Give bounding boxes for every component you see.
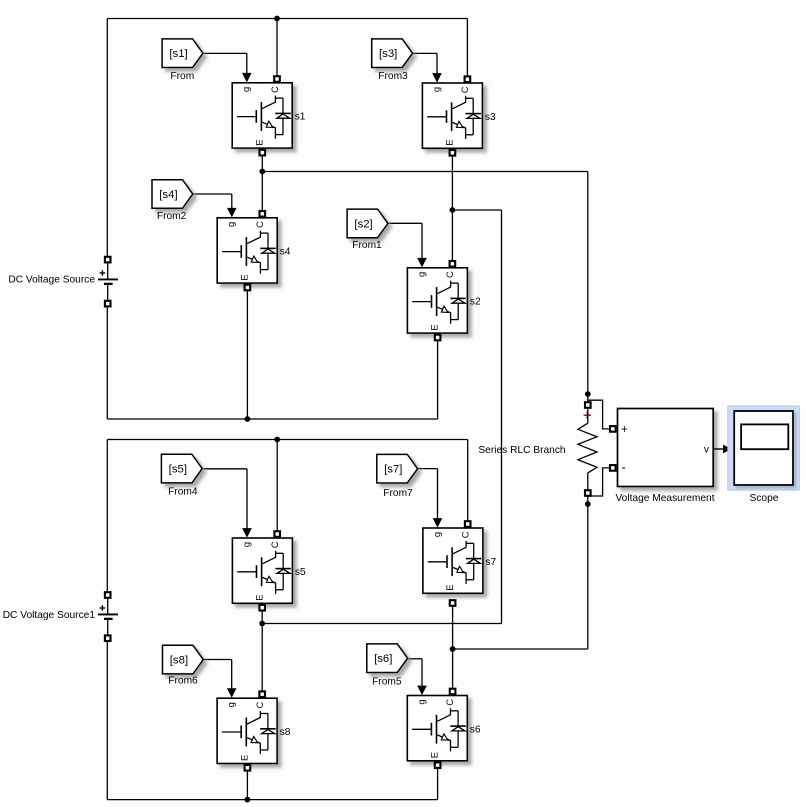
IGBT/Diode block s7 xyxy=(423,528,483,593)
svg-text:C: C xyxy=(445,271,456,278)
resistor zigzag xyxy=(578,423,597,473)
From tag From6 [s8] xyxy=(163,645,204,674)
svg-text:g: g xyxy=(416,272,427,277)
svg-text:+: + xyxy=(621,424,628,436)
node: s4 E junction on bottom rail xyxy=(245,416,251,422)
svg-text:[s8]: [s8] xyxy=(170,655,188,667)
port C of s3 xyxy=(465,76,471,82)
wire: RLC - column up xyxy=(587,496,589,649)
wire: v output to Scope xyxy=(713,448,723,450)
svg-text:DC Voltage Source1: DC Voltage Source1 xyxy=(3,610,96,621)
svg-text:C: C xyxy=(460,86,471,93)
wire: left drop to DC Voltage Source + xyxy=(106,19,108,258)
svg-text:Voltage Measurement: Voltage Measurement xyxy=(615,493,714,504)
svg-text:C: C xyxy=(270,541,281,548)
node: RLC + feed junction xyxy=(585,391,591,397)
svg-text:C: C xyxy=(445,699,456,706)
svg-text:C: C xyxy=(255,221,266,228)
wire: s7 collector drop xyxy=(467,440,469,522)
From tag From4 [s5] xyxy=(161,454,202,483)
port E of s7 xyxy=(450,600,456,606)
wire: bridge link column down to lower bridge xyxy=(501,210,503,624)
svg-text:Series RLC Branch: Series RLC Branch xyxy=(478,445,565,456)
wire: bottom rail xyxy=(107,799,437,801)
wire: From7 -> s7 gate xyxy=(418,468,437,470)
port E of s4 xyxy=(245,285,251,291)
wire: From1 -> s2 gate xyxy=(388,222,422,224)
port E of s1 xyxy=(260,150,266,156)
svg-text:DC Voltage Source: DC Voltage Source xyxy=(8,275,95,286)
DC Voltage Source xyxy=(98,257,118,307)
wire: upper bottom rail xyxy=(107,418,437,420)
wire: s7 E drop to node D xyxy=(452,605,454,649)
svg-text:s2: s2 xyxy=(470,297,481,308)
wire: node B down to s2 C xyxy=(451,210,453,261)
node: RLC - junction xyxy=(585,501,591,507)
port E of s8 xyxy=(245,765,251,771)
wire: DC source - drop xyxy=(106,306,108,419)
wire: From5 -> s6 gate xyxy=(409,658,422,660)
wire: RLC + to Voltage Measurement + xyxy=(588,400,610,429)
svg-text:E: E xyxy=(255,594,266,600)
plus sign xyxy=(100,272,106,274)
svg-text:From7: From7 xyxy=(383,488,413,499)
svg-text:g: g xyxy=(432,532,443,537)
wire: s1 collector drop xyxy=(276,19,278,77)
svg-text:s8: s8 xyxy=(280,727,291,738)
wire: From4 -> s5 gate xyxy=(203,468,247,470)
wire: s5 collector drop xyxy=(276,440,278,532)
wire: From6 -> s8 gate xyxy=(204,659,232,661)
svg-text:From5: From5 xyxy=(372,677,402,688)
DC Voltage Source1 xyxy=(98,592,118,641)
port C of s2 xyxy=(450,261,456,267)
IGBT/Diode block s3 xyxy=(422,83,482,148)
svg-text:[s6]: [s6] xyxy=(374,653,392,665)
wire: node C down to s8 C xyxy=(261,624,263,692)
svg-text:g: g xyxy=(431,87,442,92)
wire: RLC - to Voltage Measurement - xyxy=(588,468,610,496)
svg-text:C: C xyxy=(255,701,266,708)
IGBT/Diode block s2 xyxy=(407,268,467,333)
From tag From2 [s4] xyxy=(152,180,193,209)
scope screen xyxy=(741,424,788,449)
svg-text:[s2]: [s2] xyxy=(354,218,372,230)
wire: node A right to RLC column xyxy=(262,171,588,173)
port C of s5 xyxy=(274,531,280,537)
svg-text:Scope: Scope xyxy=(750,493,779,504)
svg-text:[s4]: [s4] xyxy=(159,189,177,201)
svg-text:-: - xyxy=(622,460,626,475)
node: s5 C junction on lower top rail xyxy=(274,437,280,443)
From tag From1 [s2] xyxy=(347,209,388,238)
svg-text:E: E xyxy=(430,324,441,330)
svg-text:g: g xyxy=(226,702,237,707)
wire: s1 E to mid rail A xyxy=(261,155,263,172)
wire: node D down to s6 C xyxy=(452,649,454,689)
port C of s1 xyxy=(274,76,280,82)
red polarity + xyxy=(584,414,591,416)
Series RLC Branch (resistor) xyxy=(578,402,597,496)
wire: RLC column down xyxy=(587,172,589,403)
wire: From3 -> s3 gate xyxy=(412,52,437,54)
IGBT/Diode block s4 xyxy=(217,218,277,283)
wire: lower bridge top rail xyxy=(107,439,467,441)
wire: s2 E drop xyxy=(437,340,439,419)
svg-text:E: E xyxy=(445,584,456,590)
IGBT/Diode block s8 xyxy=(217,698,277,763)
svg-text:E: E xyxy=(255,139,266,145)
plus sign xyxy=(100,607,106,609)
wire: From -> s1 gate xyxy=(203,52,247,54)
node A: s1E/s4C junction xyxy=(259,169,265,175)
svg-text:s1: s1 xyxy=(295,112,306,123)
wire: s5 E to mid rail C xyxy=(261,608,263,624)
port E of s3 xyxy=(450,150,456,156)
svg-text:s4: s4 xyxy=(280,247,291,258)
svg-text:From4: From4 xyxy=(168,487,198,498)
IGBT/Diode block s1 xyxy=(232,83,292,148)
svg-text:s3: s3 xyxy=(485,112,496,123)
port E of s5 xyxy=(259,605,265,611)
svg-text:From6: From6 xyxy=(168,676,198,687)
wire: top DC+ rail xyxy=(107,18,467,20)
svg-text:s6: s6 xyxy=(470,724,481,735)
From tag From7 [s7] xyxy=(377,454,418,483)
svg-text:s7: s7 xyxy=(485,557,496,568)
port C of s7 xyxy=(465,521,471,527)
svg-text:From: From xyxy=(170,71,194,82)
svg-text:C: C xyxy=(270,86,281,93)
From tag From3 [s3] xyxy=(372,39,413,68)
port E of s6 xyxy=(435,762,441,768)
svg-text:E: E xyxy=(239,755,250,761)
port C of s8 xyxy=(259,691,265,697)
wire: left drop to DC Voltage Source1 + xyxy=(106,440,108,593)
svg-text:E: E xyxy=(430,752,441,758)
svg-text:E: E xyxy=(240,274,251,280)
svg-text:[s7]: [s7] xyxy=(384,464,402,476)
svg-text:From2: From2 xyxy=(157,211,187,222)
node D: s7E/s6C junction xyxy=(450,646,456,652)
svg-text:From3: From3 xyxy=(378,71,408,82)
From tag From [s1] xyxy=(162,39,203,68)
svg-text:g: g xyxy=(241,87,252,92)
svg-text:E: E xyxy=(445,139,456,145)
port C of s6 xyxy=(450,689,456,695)
svg-text:From1: From1 xyxy=(352,240,382,251)
wire: s6 E drop xyxy=(437,767,439,799)
port C of s4 xyxy=(260,211,266,217)
From tag From5 [s6] xyxy=(367,644,408,673)
wire: s8 E drop xyxy=(246,770,248,800)
IGBT/Diode block s5 xyxy=(232,538,292,603)
svg-text:g: g xyxy=(226,222,237,227)
node C: s5E/s8C junction xyxy=(259,621,265,627)
node: s8 E junction on bottom rail xyxy=(245,797,251,803)
svg-text:[s5]: [s5] xyxy=(169,464,187,476)
wire: node D right to RLC - column xyxy=(453,648,588,650)
svg-text:s5: s5 xyxy=(295,567,306,578)
svg-text:[s1]: [s1] xyxy=(169,48,187,60)
wire: node A down to s4 C xyxy=(261,172,263,212)
node: top rail / s1 C junction xyxy=(274,16,280,22)
Voltage Measurement block xyxy=(610,409,713,487)
svg-text:g: g xyxy=(416,699,427,704)
node B: s3E/s2C junction xyxy=(450,207,456,213)
wire: s4 E drop xyxy=(246,290,248,419)
svg-text:C: C xyxy=(461,531,472,538)
port E of s2 xyxy=(435,335,441,341)
IGBT/Diode block s6 xyxy=(407,696,467,761)
wire: node B right xyxy=(452,209,501,211)
svg-text:g: g xyxy=(241,542,252,547)
svg-text:[s3]: [s3] xyxy=(379,48,397,60)
Scope block (selected, blue frame) xyxy=(728,406,800,490)
wire: s3 collector drop xyxy=(466,19,468,77)
wire: s3 E to mid rail B xyxy=(451,155,453,210)
wire: node C right to bridge link xyxy=(262,623,501,625)
wire: DC source1 - drop xyxy=(106,641,108,800)
wire: From2 -> s4 gate xyxy=(193,193,232,195)
